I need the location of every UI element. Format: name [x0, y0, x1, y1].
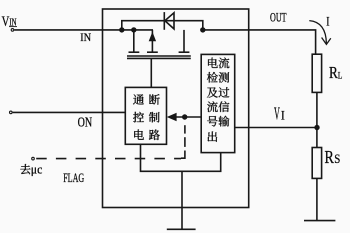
svg-text:L: L: [338, 70, 343, 81]
svg-text:IN: IN: [80, 31, 91, 44]
svg-text:R: R: [325, 149, 335, 168]
svg-text:R: R: [329, 65, 338, 83]
svg-text:IN: IN: [9, 16, 16, 28]
svg-text:OUT: OUT: [270, 12, 287, 25]
svg-text:S: S: [334, 151, 340, 166]
svg-text:μc: μc: [31, 162, 43, 177]
svg-text:V: V: [2, 12, 10, 29]
svg-text:I: I: [326, 16, 329, 30]
svg-text:V: V: [274, 104, 280, 125]
svg-text:I: I: [281, 108, 285, 123]
svg-text:FLAG: FLAG: [63, 171, 84, 185]
svg-text:ON: ON: [78, 114, 93, 130]
